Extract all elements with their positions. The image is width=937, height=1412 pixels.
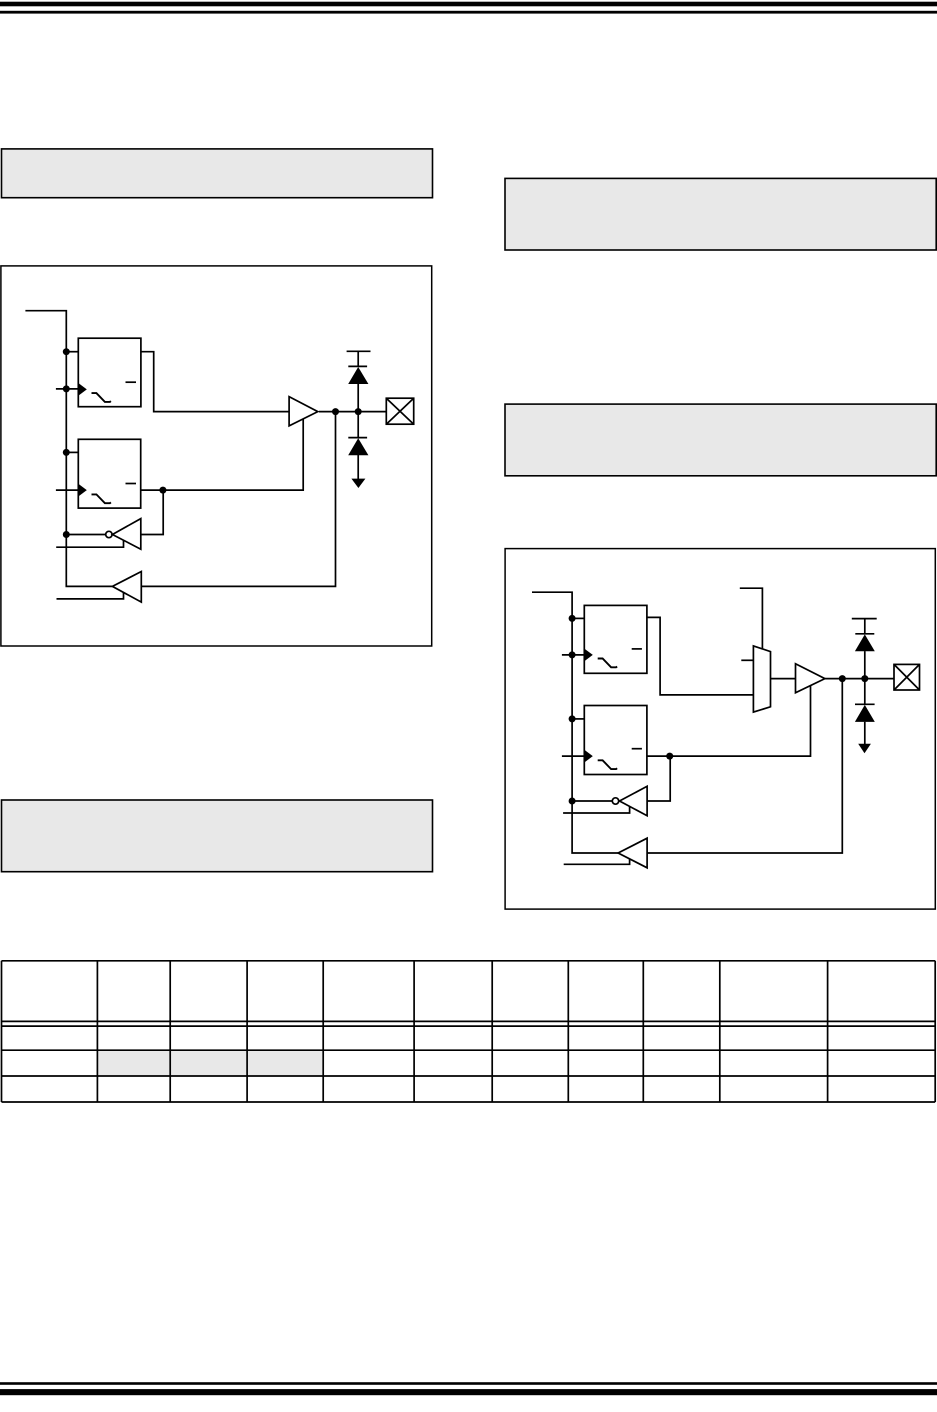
inverter U4 bubble xyxy=(106,531,112,537)
wire U7 CK input xyxy=(562,755,584,757)
inverter U9 bubble xyxy=(612,798,618,804)
top page rule thick xyxy=(0,2,937,7)
input buffer U5 xyxy=(112,572,141,603)
U6 edge symbol xyxy=(598,659,617,668)
wire mux output xyxy=(771,678,796,680)
U2 Q dash xyxy=(126,483,137,485)
wire inverter input xyxy=(66,534,105,536)
node pin junction 2 xyxy=(355,408,362,415)
node U2 D junction xyxy=(63,449,70,456)
diode D1 cathode xyxy=(348,365,367,367)
wire U1 CK input xyxy=(56,388,78,390)
diode D3 xyxy=(855,634,875,651)
node U6 D junction xyxy=(569,615,576,622)
I/O pin P1 xyxy=(386,398,413,424)
diode D2 xyxy=(348,438,368,455)
figure 1 frame xyxy=(1,266,432,646)
wire U2 output to buffer enable xyxy=(141,419,304,490)
data latch U6 xyxy=(584,605,647,673)
wire U4 output xyxy=(141,490,163,534)
wire pin to diode D4 xyxy=(864,679,866,705)
wire pin row 2 xyxy=(825,678,894,680)
U1 edge symbol xyxy=(92,393,111,402)
node U6 CK junction xyxy=(569,651,576,658)
U1 Q dash xyxy=(126,381,137,383)
U2 edge symbol xyxy=(92,494,111,503)
U7 edge symbol xyxy=(598,760,617,769)
ground VSS arrow xyxy=(351,479,365,488)
wire data bus entry xyxy=(25,311,112,587)
data latch U1 xyxy=(78,338,141,407)
wire inverter U9 input xyxy=(572,800,612,802)
U6 Q dash xyxy=(632,648,642,650)
wire U6 D input xyxy=(572,617,584,619)
register table xyxy=(2,961,936,1102)
wire pin to diode D2 xyxy=(357,412,359,438)
U6 clock wedge xyxy=(584,649,593,662)
node U9 input junction xyxy=(569,798,576,805)
wire U1 Q to output buffer xyxy=(141,352,290,412)
node pin junction 1 xyxy=(332,408,339,415)
TRIS latch U2 xyxy=(78,439,140,508)
node U2 output junction xyxy=(159,487,166,494)
I/O pin P1 cross xyxy=(386,398,413,424)
table horizontal lines xyxy=(2,961,936,1102)
output buffer U8 xyxy=(796,664,825,693)
top page rule thin xyxy=(0,11,937,14)
table vertical lines xyxy=(2,961,936,1102)
node pin junction 4 xyxy=(861,675,868,682)
VDD rail 2 xyxy=(852,618,877,620)
section header box 3 xyxy=(505,404,936,476)
node U7 D junction xyxy=(569,715,576,722)
table shaded cells xyxy=(98,1051,322,1075)
diode D4 cathode xyxy=(855,703,875,705)
node U7 output junction xyxy=(666,753,673,760)
input buffer U10 xyxy=(618,838,647,868)
wire mux select xyxy=(740,588,763,649)
wire D1 anode to pin xyxy=(357,384,359,412)
diode D2 cathode xyxy=(348,437,367,439)
wire data bus entry 2 xyxy=(532,592,618,853)
bottom page rule thin xyxy=(0,1382,937,1385)
diode D1 xyxy=(348,367,368,384)
wire U10 enable xyxy=(564,859,630,864)
bottom page rule thick xyxy=(0,1389,937,1395)
node U1 CK junction xyxy=(63,385,70,392)
wire VDD to diode D3 xyxy=(864,619,866,634)
wire U2 CK input xyxy=(56,489,78,491)
wire D2 anode to VSS xyxy=(357,455,359,481)
section header box 4 xyxy=(2,800,433,872)
node U1 D junction xyxy=(63,348,70,355)
wire U5 enable xyxy=(57,593,124,599)
wire U4 enable xyxy=(56,540,123,547)
wire VDD to diode D1 xyxy=(357,351,359,366)
inverter U9 xyxy=(620,786,648,815)
figure 2 frame xyxy=(505,549,935,910)
node inverter input junction xyxy=(63,531,70,538)
section header box 2 xyxy=(505,178,936,250)
TRIS latch U7 xyxy=(584,706,647,775)
wire mux input stub xyxy=(741,659,753,661)
ground VSS arrow 2 xyxy=(858,744,871,754)
wire U9 output xyxy=(647,756,670,801)
U2 clock wedge xyxy=(78,484,87,497)
wire U6 Q to mux xyxy=(647,617,754,695)
section header box 1 xyxy=(2,149,433,198)
wire U9 enable xyxy=(563,806,630,813)
U1 clock wedge xyxy=(78,383,87,396)
node pin junction 3 xyxy=(839,675,846,682)
I/O pin P2 cross xyxy=(894,664,920,690)
I/O pin P2 xyxy=(894,664,920,690)
diode D3 cathode xyxy=(855,633,874,635)
wire U7 output to buffer enable xyxy=(647,685,811,756)
U7 Q dash xyxy=(632,748,642,750)
mux M1 xyxy=(753,646,770,712)
wire D3 anode to pin xyxy=(864,651,866,679)
inverter U4 xyxy=(112,519,140,550)
wire U10 input from pin xyxy=(647,679,842,853)
wire pin row xyxy=(319,411,387,413)
wire U2 D input xyxy=(66,451,78,453)
U7 clock wedge xyxy=(584,750,593,763)
wire U7 D input xyxy=(572,718,584,720)
VDD rail xyxy=(347,350,371,352)
wire U5 input from pin xyxy=(141,412,335,587)
wire U1 D input xyxy=(66,351,78,353)
diode D4 xyxy=(855,705,875,722)
wire U6 CK input xyxy=(562,654,584,656)
output buffer U3 xyxy=(289,397,318,426)
wire D4 anode to VSS xyxy=(864,722,866,746)
